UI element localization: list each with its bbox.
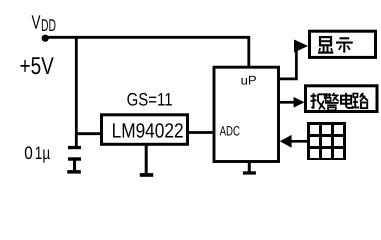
svg-text:LM94022: LM94022 (112, 119, 184, 142)
svg-text:+5V: +5V (20, 53, 55, 80)
svg-text:V: V (32, 13, 41, 34)
block uP microprocessor (214, 67, 279, 161)
label VDD (32, 13, 57, 36)
arrowhead into alarm box (294, 97, 305, 108)
wire left vertical drop from rail (75, 36, 78, 147)
glyph dian (alarm char 3) (341, 93, 352, 108)
glyph shi (display char 2) (336, 38, 353, 52)
capacitor C1 (68, 146, 81, 170)
box display (xianshi) (310, 31, 376, 57)
svg-text:DD: DD (41, 16, 56, 35)
glyph xian (display char 1) (318, 37, 333, 53)
keypad matrix 3x3 (307, 122, 346, 160)
box alarm circuit (baojing dianlu) (306, 86, 378, 112)
svg-text:uP: uP (241, 73, 257, 87)
ground below LM94022 (140, 145, 153, 177)
node VDD junction dot (42, 35, 49, 42)
arrowhead into uP right edge (280, 135, 292, 148)
keypad arrow into uP (291, 140, 308, 143)
IC U1 LM94022 (102, 115, 188, 145)
wire LM94022 output to uP ADC (188, 131, 217, 134)
svg-text:1µ: 1µ (35, 143, 50, 163)
ground below uP (243, 162, 256, 175)
svg-text:GS=11: GS=11 (127, 90, 173, 110)
wire VDD rail to uP top (44, 37, 249, 67)
glyph bao (alarm char 1) (311, 93, 326, 109)
svg-text:ADC: ADC (220, 124, 240, 139)
arrowhead into display box (294, 40, 308, 53)
wire uP to display arrow (279, 46, 296, 79)
wire uP to alarm arrow (279, 101, 294, 104)
glyph lu (alarm char 4) (353, 93, 368, 108)
wire branch to LM94022 left pin (75, 132, 103, 135)
glyph jing (alarm char 2) (325, 93, 339, 110)
svg-text:0: 0 (24, 143, 33, 163)
ground below C1 (67, 170, 81, 174)
